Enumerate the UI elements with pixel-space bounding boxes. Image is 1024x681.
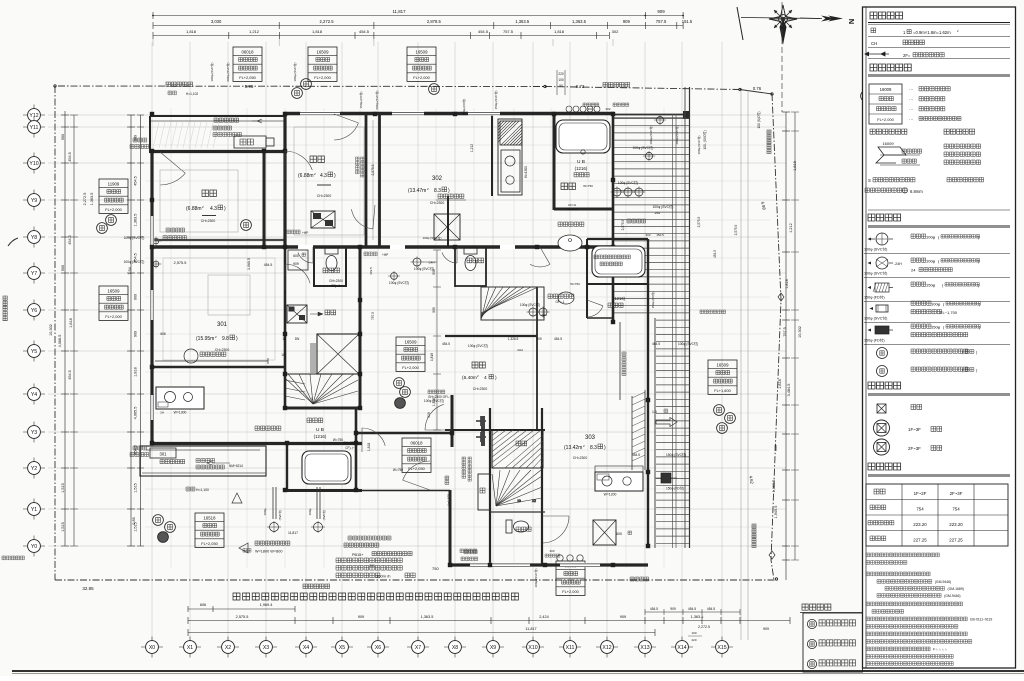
check circles trio bottom-left (153, 515, 164, 526)
svg-text:2,575.5: 2,575.5 (697, 216, 701, 227)
svg-text:454.5: 454.5 (713, 250, 717, 258)
svg-text:909: 909 (293, 262, 299, 266)
svg-text:CF=H: CF=H (568, 203, 576, 207)
svg-text:W=750: W=750 (393, 468, 403, 472)
svg-text:1,818: 1,818 (430, 353, 434, 361)
svg-text:X10: X10 (528, 645, 537, 651)
legend general row 1 (871, 28, 876, 33)
svg-text:1,949.5: 1,949.5 (774, 506, 778, 519)
svg-text:-24H: -24H (654, 211, 661, 215)
svg-text:100φ (SVC付): 100φ (SVC付) (520, 302, 540, 307)
svg-text:150.5: 150.5 (656, 233, 664, 237)
svg-text:X5: X5 (339, 645, 345, 651)
svg-text:100φ: 100φ (931, 302, 941, 307)
svg-text:2,575.5: 2,575.5 (371, 164, 375, 175)
bottom sheet edge line (12, 670, 1024, 672)
counter label 302 (438, 194, 464, 198)
sash box L2 16509 (99, 286, 128, 320)
svg-text:X6: X6 (375, 645, 381, 651)
legend equip row 1 fan100 (876, 233, 888, 245)
sash box L1 11909 (99, 179, 128, 213)
svg-text:(6.88m: (6.88m (298, 173, 314, 179)
svg-text:909: 909 (670, 607, 676, 611)
site boundary left (54, 86, 56, 580)
boundary label left rotated (3, 296, 7, 321)
svg-text:16509: 16509 (405, 339, 418, 344)
svg-text:909: 909 (358, 615, 364, 619)
svg-text:U B: U B (316, 427, 324, 433)
svg-text:(SVC付): (SVC付) (322, 510, 326, 520)
entry lattice marks (476, 416, 486, 442)
grid bubbles Y axis (23, 114, 45, 116)
svg-text:FL~1,700: FL~1,700 (940, 310, 958, 315)
svg-text:1,515: 1,515 (134, 483, 138, 493)
svg-text:GH=2300: GH=2300 (343, 441, 357, 445)
svg-text:(1216): (1216) (314, 434, 327, 439)
svg-text:150φ (FD付): 150φ (FD付) (650, 292, 655, 309)
svg-text:100φ (SVC付): 100φ (SVC付) (696, 136, 701, 155)
svg-text:1F~2F: 1F~2F (914, 491, 927, 496)
svg-text:754: 754 (952, 507, 960, 512)
legend equip row 4 intake100 (876, 305, 888, 312)
bottom dim row B2 right small (645, 611, 740, 613)
washbasin 2 (558, 292, 574, 304)
svg-text:CF)--1-: CF)--1- (331, 284, 341, 288)
door arcs (285, 151, 312, 170)
legend divider (868, 209, 1010, 211)
svg-text:1,060.5: 1,060.5 (772, 480, 776, 493)
svg-text:DN: DN (295, 337, 300, 341)
svg-text:(15.95m: (15.95m (196, 336, 214, 342)
triangle marker (232, 493, 242, 503)
sash box R1 16509 (396, 337, 425, 371)
svg-text:X14: X14 (677, 645, 686, 651)
svg-text:X2: X2 (225, 645, 231, 651)
svg-text:454.5: 454.5 (68, 370, 72, 380)
overflow note top-left (133, 138, 147, 142)
svg-text:10: 10 (281, 353, 285, 357)
svg-text:100φ (SVC付): 100φ (SVC付) (468, 343, 488, 348)
svg-text:8.3: 8.3 (434, 188, 441, 194)
svg-text:Y1: Y1 (31, 507, 37, 513)
check circles trio right (714, 405, 725, 416)
svg-text:-24H: -24H (428, 261, 435, 265)
svg-text:4.3: 4.3 (210, 206, 217, 212)
svg-text:300m /h: 300m /h (376, 574, 390, 579)
svg-text:W=1300: W=1300 (524, 166, 528, 178)
svg-text:909: 909 (432, 307, 436, 313)
svg-text:GH=2300: GH=2300 (329, 279, 343, 283)
legend wire glass note (865, 188, 907, 192)
svg-text:CH=2300: CH=2300 (201, 219, 216, 223)
room label bedroom left (202, 190, 216, 197)
left dimension lines (130, 115, 132, 546)
svg-text:Y9: Y9 (31, 198, 37, 204)
top dimension row 1 overall (153, 15, 683, 17)
legend header equipment (868, 214, 901, 221)
overflow note bottom-left (133, 446, 147, 450)
svg-text:FL+2,050: FL+2,050 (201, 541, 218, 546)
toilet 1 (325, 248, 338, 254)
room label bedroom center (310, 156, 324, 163)
svg-text:GH=2300 GFレト: GH=2300 GFレト (428, 395, 453, 399)
legend header general (870, 12, 903, 19)
svg-text:1,515: 1,515 (61, 522, 65, 532)
svg-text:FL+2,050: FL+2,050 (239, 75, 256, 80)
svg-text:606: 606 (160, 332, 166, 336)
svg-text:X13: X13 (640, 645, 649, 651)
closet X-box 303 (593, 520, 616, 545)
construction grid (48, 42, 786, 642)
svg-text:1,060.5: 1,060.5 (247, 258, 251, 270)
bathtub lower (302, 451, 351, 484)
svg-text:1,363.5: 1,363.5 (90, 193, 94, 206)
interior dim chain 302 hall (436, 250, 438, 430)
vent right strip upper (645, 152, 652, 159)
svg-text:Y8: Y8 (31, 235, 37, 241)
svg-text:CH=2300: CH=2300 (473, 387, 488, 391)
bathtub UB upper (556, 120, 610, 153)
svg-text:(1216): (1216) (613, 296, 626, 301)
svg-text:2H: 2H (160, 411, 164, 415)
svg-text:223.20: 223.20 (949, 522, 963, 527)
svg-text:1.5: 1.5 (652, 410, 657, 414)
svg-text:909: 909 (427, 412, 431, 418)
svg-text:06018: 06018 (242, 49, 255, 54)
svg-text:Y4: Y4 (31, 392, 37, 398)
sash box B2 06009 (556, 561, 585, 595)
top dimension row 3 (153, 35, 609, 37)
wall furring note (166, 228, 185, 232)
svg-text:3,030: 3,030 (211, 19, 222, 24)
svg-text:2,272.5: 2,272.5 (698, 625, 710, 629)
vertical extension lines right of plan (740, 90, 742, 640)
svg-text:150φ: 150φ (931, 325, 941, 330)
svg-text:16509: 16509 (108, 288, 121, 293)
svg-text:11,817: 11,817 (525, 627, 536, 631)
svg-text:···: ··· (909, 97, 914, 102)
svg-text:454.5: 454.5 (264, 263, 273, 267)
svg-text:H=1,102: H=1,102 (186, 92, 198, 96)
svg-text:1,818: 1,818 (69, 318, 73, 328)
svg-text:454.5: 454.5 (359, 29, 370, 34)
svg-text:757.5: 757.5 (503, 29, 514, 34)
legend equip row 5 intake150 (875, 326, 889, 334)
bottom dim row A (188, 608, 295, 610)
svg-text:X3: X3 (263, 645, 269, 651)
legend structure row kanbashira (877, 404, 886, 413)
svg-text:757.5: 757.5 (783, 327, 787, 337)
svg-text:4: 4 (484, 375, 487, 381)
svg-text:600: 600 (616, 532, 622, 536)
svg-text:24: 24 (911, 268, 916, 273)
svg-text:···: ··· (909, 107, 914, 112)
svg-text:4,065.5: 4,065.5 (134, 407, 138, 420)
svg-text:303: 303 (585, 435, 596, 441)
svg-text:···: ··· (909, 117, 914, 122)
sash box T3 16509 (407, 47, 436, 81)
svg-text:FL+2,000: FL+2,000 (562, 589, 579, 594)
svg-text:Y7: Y7 (31, 271, 37, 277)
svg-text:06018: 06018 (411, 440, 424, 445)
svg-text:2,575.5: 2,575.5 (174, 261, 187, 265)
balcony diagonal hatch top-left (153, 122, 219, 148)
svg-text:X4: X4 (303, 645, 309, 651)
svg-text:909: 909 (657, 9, 665, 14)
svg-text:FL+1,600: FL+1,600 (714, 388, 731, 393)
svg-text:1,212: 1,212 (249, 29, 260, 34)
301 tatami rect (163, 258, 275, 360)
svg-text:16009: 16009 (882, 141, 894, 146)
sash box R3 16509 (708, 360, 737, 394)
svg-text:(13.42m: (13.42m (564, 445, 582, 451)
svg-text:606: 606 (200, 603, 206, 607)
overflow note genkan (464, 550, 477, 554)
kitchen hatch and sink 302 (498, 119, 522, 195)
svg-text:302: 302 (605, 107, 610, 111)
svg-text:100φ (SVC付): 100φ (SVC付) (423, 235, 442, 240)
svg-text:909: 909 (774, 445, 778, 451)
svg-text:1,363.5: 1,363.5 (572, 19, 587, 24)
svg-text:909: 909 (763, 627, 769, 631)
svg-text:2,272.5: 2,272.5 (83, 193, 87, 206)
svg-text:150φ (SVC付): 150φ (SVC付) (666, 452, 686, 457)
svg-text:302: 302 (432, 176, 443, 182)
svg-text:1F~3F: 1F~3F (908, 427, 921, 432)
svg-text:454.5: 454.5 (650, 607, 658, 611)
svg-text:900: 900 (61, 265, 65, 271)
bathtub right-mid (592, 246, 645, 277)
svg-text:909: 909 (134, 294, 138, 300)
svg-text:223.20: 223.20 (913, 522, 927, 527)
svg-text:3,484.5: 3,484.5 (787, 384, 791, 397)
svg-text:302: 302 (612, 29, 619, 34)
svg-text:6.8mm: 6.8mm (910, 189, 923, 194)
right small dim 220 100 50 (556, 70, 558, 95)
svg-text:757.5: 757.5 (371, 312, 375, 320)
svg-text:1,818: 1,818 (785, 279, 789, 289)
grid bubbles X axis (141, 646, 163, 648)
UB labels lower (307, 418, 323, 423)
svg-text:EB-0111~9119: EB-0111~9119 (970, 618, 992, 622)
svg-text:1,818: 1,818 (134, 367, 138, 377)
svg-text:8.73: 8.73 (576, 84, 585, 89)
svg-text:FL+2,000: FL+2,000 (413, 75, 430, 80)
svg-text:2,424: 2,424 (539, 615, 549, 619)
svg-text:(SVC付): (SVC付) (278, 510, 282, 520)
compass rose (769, 5, 797, 33)
site boundary bottom (55, 579, 777, 581)
svg-text:909: 909 (623, 19, 631, 24)
svg-text:(13.47m: (13.47m (408, 188, 426, 194)
svg-text:100φ (SVC付): 100φ (SVC付) (864, 316, 887, 321)
room label bedroom 6.40 (472, 362, 485, 368)
svg-text:301: 301 (217, 322, 228, 328)
boundary label top-left (166, 82, 193, 87)
entry door 302 (478, 474, 490, 510)
svg-text:7.94: 7.94 (128, 267, 132, 274)
svg-text:X0: X0 (149, 645, 155, 651)
svg-text:S: S (868, 178, 871, 183)
svg-text:X8: X8 (452, 645, 458, 651)
svg-text:909: 909 (620, 615, 626, 619)
site boundary right (slanted) (771, 94, 781, 580)
svg-text:1,363.5: 1,363.5 (421, 615, 434, 619)
svg-text:150φ (FD付): 150φ (FD付) (864, 338, 885, 343)
svg-text:100φ (SVC付): 100φ (SVC付) (633, 145, 654, 150)
svg-text:1,818: 1,818 (312, 29, 323, 34)
svg-text:11,817: 11,817 (288, 531, 298, 535)
svg-text:(1216): (1216) (575, 166, 588, 171)
legend panel frame (863, 7, 1016, 668)
svg-text:CH=2300: CH=2300 (215, 348, 230, 352)
legend equip row 3 fan150 (875, 283, 889, 292)
bedroom tag box top (234, 136, 266, 148)
svg-text:100φ: 100φ (926, 235, 936, 240)
svg-text:454.5: 454.5 (134, 176, 138, 186)
svg-text:1,212: 1,212 (789, 223, 793, 233)
svg-text:454.5: 454.5 (707, 607, 715, 611)
check circles top (301, 79, 312, 90)
light court hatch band (632, 392, 645, 461)
toilet 2 (464, 248, 477, 254)
toilet labels (323, 268, 340, 273)
svg-text:0.85: 0.85 (132, 517, 136, 524)
svg-text:W=1800 W=800: W=1800 W=800 (255, 550, 282, 554)
svg-text:454.5: 454.5 (652, 342, 660, 346)
svg-text:220: 220 (691, 638, 696, 642)
svg-text:303: 303 (645, 233, 650, 237)
svg-text:Y2: Y2 (31, 466, 37, 472)
svg-text:Y6: Y6 (31, 308, 37, 314)
kitchen counter 303 (595, 472, 643, 491)
svg-text:754: 754 (916, 507, 924, 512)
svg-text:454.5: 454.5 (688, 607, 696, 611)
svg-text:U B: U B (577, 159, 585, 165)
legend equip row 7 heat alarm (877, 366, 888, 377)
svg-text:Y11: Y11 (30, 125, 39, 131)
common-to-floors box (802, 604, 831, 610)
svg-text:X11: X11 (566, 645, 575, 651)
svg-text:100φ (SVC付): 100φ (SVC付) (864, 271, 887, 276)
svg-text:600φ-(SVC付): 600φ-(SVC付) (374, 90, 379, 109)
svg-text:220: 220 (558, 72, 564, 76)
svg-text:(GM-9446): (GM-9446) (944, 594, 960, 598)
left outer dimension chain (64, 111, 66, 546)
sash box R2 06018 (402, 438, 431, 472)
svg-text:FL+2,000: FL+2,000 (877, 117, 894, 122)
svg-text:1,363.5: 1,363.5 (515, 19, 530, 24)
svg-text:600: 600 (293, 254, 299, 258)
svg-text:(GM-9446): (GM-9446) (935, 580, 951, 584)
balcony labels bottom (150, 448, 176, 458)
legend sash table (869, 84, 902, 124)
svg-text:100: 100 (558, 78, 564, 82)
entry triangle note (239, 543, 248, 553)
svg-text:100φ (SVC付): 100φ (SVC付) (653, 204, 674, 209)
svg-text:16009: 16009 (880, 87, 892, 92)
party wall rotated note (356, 157, 360, 174)
light court label (622, 352, 626, 376)
legend general row 3 (865, 52, 889, 56)
svg-text:+HP: +HP (302, 231, 308, 235)
svg-text:0.76: 0.76 (753, 86, 762, 91)
svg-text:W=750: W=750 (570, 282, 580, 286)
svg-text:CH=2300: CH=2300 (317, 194, 332, 198)
svg-text:16509: 16509 (717, 362, 730, 367)
svg-text:X2: X2 (532, 499, 536, 503)
svg-text:24H: 24H (541, 313, 547, 317)
svg-text:(6.88m: (6.88m (186, 206, 202, 212)
hall door arc 303 (542, 516, 569, 543)
svg-text:1,818: 1,818 (367, 443, 371, 452)
pillar note (287, 230, 300, 234)
svg-text:···: ··· (909, 87, 914, 92)
svg-text:32.85: 32.85 (82, 586, 94, 591)
svg-text:5: 5 (311, 397, 313, 401)
svg-text:-24H: -24H (894, 262, 902, 266)
svg-text:100φ: 100φ (926, 259, 936, 264)
svg-text:X12: X12 (602, 645, 611, 651)
svg-text:(GM-1689): (GM-1689) (947, 587, 963, 591)
svg-text:100φ (SVC付): 100φ (SVC付) (864, 247, 887, 252)
svg-text:227.25: 227.25 (913, 538, 927, 543)
svg-text:454.5: 454.5 (68, 235, 72, 245)
svg-text:301: 301 (160, 452, 168, 457)
svg-text:100φ (SVC付): 100φ (SVC付) (678, 341, 698, 346)
svg-text:100φ: 100φ (263, 508, 267, 515)
svg-text:100φ (SVC付): 100φ (SVC付) (618, 180, 638, 185)
svg-text:X15: X15 (717, 645, 726, 651)
svg-text:1,818: 1,818 (554, 29, 565, 34)
tatami rect bedroom left (160, 170, 238, 232)
svg-text:1,363.5: 1,363.5 (134, 214, 138, 227)
svg-text:10,302: 10,302 (798, 326, 802, 338)
svg-text:CH=2300: CH=2300 (573, 456, 588, 460)
svg-text:+HP: +HP (382, 253, 388, 257)
svg-text:16509: 16509 (416, 49, 429, 54)
svg-text:1,326.5: 1,326.5 (508, 337, 519, 341)
600 box (288, 250, 308, 270)
svg-text:909: 909 (134, 331, 138, 337)
svg-text:16518: 16518 (204, 515, 217, 520)
svg-text:Y10: Y10 (29, 161, 38, 167)
svg-text:FL+2,000: FL+2,000 (314, 75, 331, 80)
svg-text:W=1200: W=1200 (604, 493, 617, 497)
svg-text:1,515: 1,515 (61, 483, 65, 493)
svg-text:454.5: 454.5 (478, 29, 489, 34)
svg-text:150φ: 150φ (926, 283, 936, 288)
svg-text:100φ-(SVC付): 100φ-(SVC付) (209, 62, 214, 81)
legend equip row 6 smoke alarm (877, 348, 888, 359)
sash box B1 16518 (195, 513, 224, 547)
svg-text:909: 909 (432, 269, 436, 275)
svg-text:8.3: 8.3 (590, 445, 597, 451)
firewood note (186, 487, 195, 491)
svg-text:X1: X1 (187, 645, 193, 651)
legend notes block (866, 553, 939, 557)
svg-text:100φ (SVC付): 100φ (SVC付) (124, 235, 145, 240)
svg-text:FL+2,000: FL+2,000 (105, 314, 122, 319)
svg-text:100 (S(C付): 100 (S(C付) (756, 111, 761, 128)
svg-text:2,575.5: 2,575.5 (236, 615, 249, 619)
svg-text:=0.9m×1.8m=1.62m: =0.9m×1.8m=1.62m (913, 30, 951, 35)
svg-text:4,066.5: 4,066.5 (58, 335, 62, 348)
svg-text:1,212: 1,212 (470, 144, 474, 152)
svg-text:100- (SVC付): 100- (SVC付) (702, 130, 707, 149)
svg-text:2F=: 2F= (903, 53, 911, 58)
svg-text:11909: 11909 (108, 181, 120, 186)
